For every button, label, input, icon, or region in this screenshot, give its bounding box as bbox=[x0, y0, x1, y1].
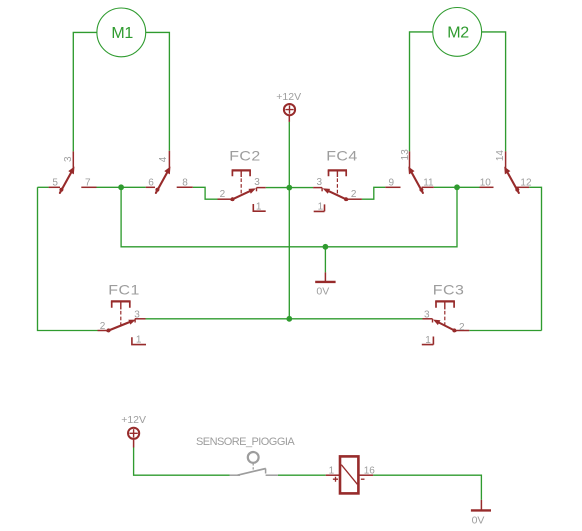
svg-text:3: 3 bbox=[134, 310, 140, 321]
svg-text:+12V: +12V bbox=[276, 91, 301, 103]
svg-text:+12V: +12V bbox=[121, 414, 146, 426]
svg-text:11: 11 bbox=[423, 178, 434, 189]
svg-text:FC3: FC3 bbox=[433, 283, 464, 298]
svg-text:16: 16 bbox=[364, 466, 376, 477]
svg-text:10: 10 bbox=[480, 178, 492, 189]
svg-text:1: 1 bbox=[425, 335, 431, 346]
svg-text:14: 14 bbox=[495, 150, 506, 162]
svg-text:2: 2 bbox=[351, 189, 357, 200]
svg-text:3: 3 bbox=[317, 177, 323, 188]
svg-text:3: 3 bbox=[424, 310, 430, 321]
svg-text:2: 2 bbox=[220, 189, 226, 200]
svg-text:FC1: FC1 bbox=[108, 283, 139, 298]
svg-text:2: 2 bbox=[459, 322, 465, 333]
svg-text:1: 1 bbox=[256, 202, 262, 213]
svg-text:FC4: FC4 bbox=[326, 150, 357, 165]
svg-text:4: 4 bbox=[158, 156, 169, 162]
svg-text:8: 8 bbox=[182, 178, 188, 189]
svg-text:0V: 0V bbox=[316, 286, 329, 298]
svg-text:13: 13 bbox=[400, 149, 411, 161]
svg-text:SENSORE_PIOGGIA: SENSORE_PIOGGIA bbox=[196, 436, 295, 448]
svg-text:0V: 0V bbox=[472, 515, 485, 527]
svg-text:3: 3 bbox=[254, 177, 260, 188]
svg-text:6: 6 bbox=[148, 178, 154, 189]
svg-text:3: 3 bbox=[63, 156, 74, 162]
svg-text:1: 1 bbox=[329, 466, 335, 477]
svg-text:12: 12 bbox=[520, 178, 532, 189]
svg-text:M2: M2 bbox=[447, 25, 469, 42]
svg-text:1: 1 bbox=[318, 202, 324, 213]
svg-text:7: 7 bbox=[85, 178, 91, 189]
svg-text:2: 2 bbox=[100, 321, 106, 332]
svg-text:5: 5 bbox=[52, 178, 58, 189]
svg-text:M1: M1 bbox=[111, 25, 133, 42]
svg-text:FC2: FC2 bbox=[229, 150, 260, 165]
svg-text:9: 9 bbox=[389, 178, 395, 189]
svg-text:1: 1 bbox=[136, 335, 142, 346]
